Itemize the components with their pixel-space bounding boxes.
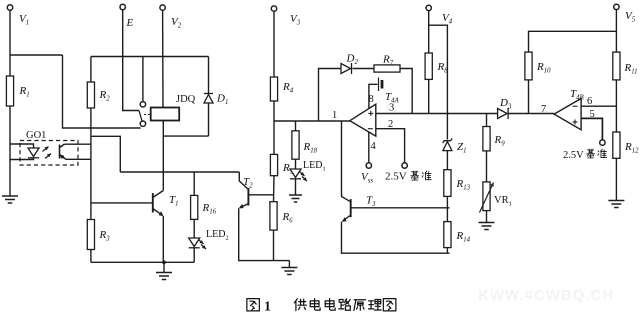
wire pin5 to 2.5V ref bbox=[581, 118, 602, 140]
wire T2 collector bend bbox=[239, 172, 248, 190]
svg-text:LED1: LED1 bbox=[303, 160, 326, 173]
caption char 3-lu bbox=[339, 299, 351, 310]
wire R1 bottom to ground, optocoupler taps bbox=[9, 106, 11, 196]
VR1 arrow bbox=[480, 183, 494, 213]
svg-text:JDQ: JDQ bbox=[176, 94, 196, 105]
wire T2 base to divider bbox=[248, 194, 274, 196]
ground G2 below T1 bbox=[156, 273, 172, 280]
terminal E bbox=[120, 4, 125, 9]
relay contact lower circle bbox=[140, 121, 145, 126]
optocoupler light arrow 2 bbox=[45, 154, 51, 159]
wire R7 to plus input rail bbox=[400, 69, 412, 114]
wire R13 to R14 bbox=[446, 196, 448, 221]
resistor R5 bbox=[270, 154, 277, 175]
svg-text:4: 4 bbox=[371, 141, 377, 152]
relay contact arm bbox=[139, 111, 142, 122]
resistor R18 bbox=[292, 131, 299, 159]
svg-text:E: E bbox=[126, 17, 134, 29]
svg-text:1: 1 bbox=[264, 300, 271, 315]
resistor R2 bbox=[87, 82, 94, 108]
relay coil JDQ bbox=[151, 108, 180, 121]
resistor R11 bbox=[613, 52, 620, 80]
wire phototransistor collector to R2 branch bbox=[65, 143, 91, 145]
wire R5 to R6 bbox=[273, 176, 276, 202]
LED2 arrow 2 bbox=[201, 245, 206, 250]
resistor R12 bbox=[613, 132, 620, 158]
wire rail down to R16 bbox=[193, 172, 195, 195]
resistor R1 bbox=[6, 76, 13, 106]
wire T3 emitter bottom run bbox=[342, 222, 450, 254]
svg-text:7: 7 bbox=[541, 104, 546, 115]
wire V3 down to R4 bbox=[273, 11, 275, 77]
ground G5 below VR1 bbox=[479, 223, 495, 230]
wire pin3 rail to D3 bbox=[376, 113, 498, 115]
wire coil bottom down to T1 collector bbox=[162, 121, 164, 191]
optocoupler phototransistor bbox=[60, 144, 65, 158]
wire LED cathode stub bbox=[10, 158, 34, 160]
wire bottom left rail bbox=[91, 261, 194, 263]
svg-text:6: 6 bbox=[587, 96, 592, 107]
resistor R7 bbox=[374, 65, 400, 72]
op-amp T4A bbox=[350, 104, 376, 136]
wire R3 bottom to bottom rail bbox=[90, 250, 92, 263]
potentiometer VR1 bbox=[483, 182, 490, 211]
caption char tu bbox=[247, 299, 259, 311]
wire V5 branch to R10 bbox=[529, 31, 617, 52]
resistor R6 bbox=[270, 202, 277, 230]
transistor T1 bbox=[153, 191, 164, 215]
diode D2 bbox=[341, 63, 352, 74]
wire E down to contact arm bbox=[123, 10, 139, 111]
LED1 diode bbox=[290, 169, 301, 179]
wire contact lower feed from left rail bbox=[63, 55, 141, 128]
wire to ground G3 bbox=[288, 261, 290, 267]
ground G6 below R12 bbox=[608, 201, 624, 208]
wire R10 to output node bbox=[528, 80, 530, 114]
wire Z1 to R13 bbox=[446, 151, 448, 170]
wire opamp output down to T3 collector bbox=[342, 121, 351, 202]
wire pin4 down to Vss terminal bbox=[368, 132, 370, 163]
wire T2 emitter to ground rail bbox=[239, 208, 290, 260]
wire coil bottom to D1 anode bbox=[163, 135, 209, 137]
wire R9 to VR1 bbox=[486, 151, 488, 182]
wire R4 to R5 bbox=[273, 101, 275, 154]
caption char 6-tu bbox=[383, 299, 395, 311]
caption char 4-yuan bbox=[354, 300, 366, 311]
wire mid node rail to opamp output bbox=[274, 120, 350, 122]
wire phototransistor emitter to node bbox=[64, 158, 91, 160]
wire VR1 to ground G5 bbox=[486, 211, 488, 222]
terminal V2 bbox=[160, 5, 165, 10]
label zhun (ref A) bbox=[422, 171, 431, 180]
svg-text:2.5V: 2.5V bbox=[563, 150, 584, 161]
wire feedback up from output bbox=[319, 69, 342, 122]
wire R14 bottom bbox=[446, 248, 448, 254]
wire R12 to ground G6 bbox=[615, 158, 617, 200]
resistor R3 bbox=[87, 220, 94, 250]
label zhun (ref B) bbox=[598, 149, 607, 157]
wire V5 down to R11 bbox=[615, 9, 617, 52]
wire contact upper to top rail bbox=[142, 57, 144, 102]
diode D1 bbox=[204, 94, 213, 104]
terminal 2.5V ref B bbox=[600, 140, 605, 145]
ground G3 below T2 bbox=[281, 268, 297, 275]
LED2 diode bbox=[189, 238, 200, 248]
relay contact upper circle bbox=[140, 102, 145, 107]
resistor R14 bbox=[444, 222, 451, 248]
wire D3 to opamp B output bbox=[509, 113, 554, 115]
caption char 1-dian bbox=[310, 299, 320, 311]
wire T1 emitter down to rail bbox=[162, 216, 164, 262]
terminal V1 bbox=[7, 5, 12, 10]
terminal V3 bbox=[271, 6, 276, 11]
wire right top rail bbox=[91, 56, 209, 58]
wire D1 anode down bbox=[208, 103, 210, 136]
resistor R10 bbox=[525, 52, 532, 80]
resistor R9 bbox=[483, 127, 490, 151]
wire R11 down to pin6 node and R12 bbox=[615, 80, 617, 132]
wire branch to mid rail bbox=[91, 136, 120, 172]
wire node to T1 base bbox=[91, 202, 152, 204]
wire pin8 supply stub bbox=[369, 84, 378, 109]
diode D3 bbox=[498, 108, 509, 119]
wire LED anode stub bbox=[10, 144, 34, 148]
wire LED1 to ground G4 bbox=[295, 179, 297, 195]
wire V4 down to R8 bbox=[428, 10, 430, 53]
terminal Vss bbox=[366, 163, 371, 168]
LED1 arrow 1 bbox=[300, 172, 305, 177]
pin8 bypass capacitor bbox=[379, 78, 383, 92]
wire pin6 to feedback node bbox=[581, 105, 616, 107]
wire T3 base to divider junction bbox=[351, 207, 450, 209]
wire R8 to pin3 rail bbox=[428, 79, 430, 113]
svg-text:3: 3 bbox=[389, 103, 394, 114]
LED2 arrow 1 bbox=[199, 240, 204, 245]
terminal V4 bbox=[426, 5, 431, 10]
terminal 2.5V ref A bbox=[402, 163, 407, 168]
junction dot bottom rail bbox=[162, 260, 166, 264]
wire V1 down to R1 bbox=[9, 10, 11, 76]
resistor R13 bbox=[444, 170, 451, 197]
wire rail down to R2 bbox=[90, 57, 92, 83]
wire R6 bottom to ground rail bbox=[273, 230, 275, 261]
caption char 0-gong bbox=[294, 299, 306, 311]
wire rail down to R9 bbox=[486, 114, 488, 127]
op-amp T4B bbox=[554, 99, 581, 130]
wire LED2 to bottom rail bbox=[193, 248, 195, 262]
optocoupler LED bbox=[28, 148, 39, 158]
optocoupler light arrow 1 bbox=[43, 147, 49, 152]
resistor R8 bbox=[425, 53, 432, 79]
wire R2 bottom trunk down to R3 bbox=[90, 108, 92, 220]
zener Z1 bbox=[443, 138, 453, 150]
svg-text:2.5V: 2.5V bbox=[385, 171, 407, 183]
resistor R4 bbox=[270, 77, 277, 101]
wire V4 branch down to Z1 bbox=[429, 25, 448, 139]
label ji (ref A) bbox=[411, 171, 419, 180]
wire R18 to LED1 bbox=[295, 159, 297, 169]
wire V2 down to relay coil bbox=[162, 10, 164, 107]
svg-text:LED2: LED2 bbox=[206, 229, 229, 242]
relay contact dashed link bbox=[144, 114, 151, 116]
ground G4 below LED1 bbox=[289, 195, 302, 202]
svg-text:1: 1 bbox=[332, 110, 337, 121]
ground G1 left bbox=[2, 196, 18, 203]
wire D2 to R7 bbox=[353, 68, 375, 70]
resistor R16 bbox=[191, 195, 198, 219]
label ji (ref B) bbox=[587, 149, 595, 158]
wire to ground G2 bbox=[163, 262, 165, 272]
wire top rail down to D1 bbox=[208, 57, 210, 94]
svg-text:KWW.#CWBQ.CH: KWW.#CWBQ.CH bbox=[478, 287, 614, 304]
caption char 5-li bbox=[368, 299, 381, 310]
terminal V5 bbox=[614, 4, 619, 9]
optocoupler GO1 dashed box bbox=[20, 141, 78, 166]
wire pin2 to 2.5V ref bbox=[376, 129, 405, 163]
wire R16 to LED2 bbox=[193, 219, 195, 238]
wire mid rail to T2 collector bbox=[120, 171, 239, 173]
caption char 2-dian bbox=[325, 299, 335, 311]
wire node down to R18 bbox=[295, 121, 297, 131]
junction dot phototransistor emitter bbox=[61, 155, 64, 158]
wire left top rail V1 to contact feed bbox=[10, 54, 63, 56]
LED1 arrow 2 bbox=[302, 177, 307, 182]
svg-text:GO1: GO1 bbox=[26, 130, 46, 141]
